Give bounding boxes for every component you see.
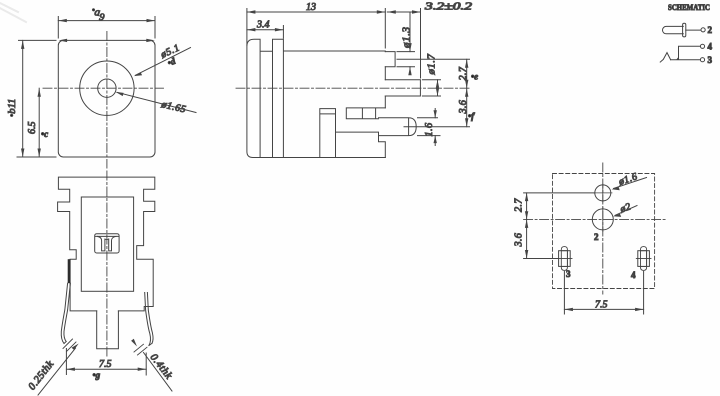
pcb leader ø1.6 line + arrow <box>614 178 647 189</box>
svg-text:•b11: •b11 <box>6 99 18 117</box>
top pin ø1.3 <box>385 52 395 67</box>
svg-text:3: 3 <box>708 55 713 65</box>
svg-text:4: 4 <box>631 270 636 280</box>
pcb dim 7.5 arrows <box>564 308 573 311</box>
right leg leader arrow <box>130 337 138 347</box>
pcb slot4 center tick <box>636 258 651 260</box>
svg-text:•d: •d <box>166 56 177 68</box>
svg-text:ø1.3: ø1.3 <box>401 26 413 49</box>
schematic switch spring <box>660 53 670 63</box>
svg-text:3.2±0.2: 3.2±0.2 <box>423 2 472 13</box>
dim a9 arrows <box>58 19 67 22</box>
right leg strip <box>145 293 153 346</box>
front view vertical centerline <box>106 32 108 169</box>
svg-text:•e: •e <box>471 72 478 82</box>
pcb horizontal centerline <box>524 218 666 220</box>
schematic pin3 terminal <box>700 58 704 62</box>
dim b11 extension lines <box>17 40 56 157</box>
switch pin bullet <box>379 118 417 136</box>
pcb slot4 verticals <box>641 251 647 267</box>
left leg leader arrow <box>72 344 79 350</box>
svg-text:7.5: 7.5 <box>595 300 608 311</box>
dim 3.6 line <box>466 88 468 127</box>
schematic pin4 terminal <box>700 44 704 48</box>
front view center pin hole ø1.65 <box>98 79 116 97</box>
dim b11 line <box>22 40 24 157</box>
dim 6.5 arrows <box>38 88 41 97</box>
svg-text:3.4: 3.4 <box>256 19 270 30</box>
side view centerline <box>236 87 470 89</box>
svg-text:4: 4 <box>708 42 713 52</box>
left leg strip <box>61 283 70 343</box>
left leg leader line <box>38 348 76 395</box>
pcb dim 2.7 extension line <box>524 192 595 194</box>
pcb vertical centerline <box>602 163 604 294</box>
left leg tick marks <box>63 339 76 352</box>
right leg tick marks <box>134 344 147 355</box>
inner vertical bar <box>320 109 336 158</box>
dim 3.4 arrows <box>247 28 256 31</box>
dim 3.4 line <box>247 29 284 31</box>
front view horizontal centerline <box>43 87 164 89</box>
dim 2.7 arrows <box>465 59 468 68</box>
pcb hole ø1.6 cross ticks <box>594 184 612 202</box>
svg-text:•g: •g <box>93 370 101 380</box>
schematic plug tip bar <box>683 23 686 37</box>
dim 7.5g line <box>66 368 146 370</box>
pcb dim 3.6 line + arrows <box>526 219 528 258</box>
dim ø1.7 line + arrows <box>437 80 439 96</box>
pcb dim 7.5 extension lines <box>564 272 643 315</box>
pcb dim 7.5 line <box>564 308 643 310</box>
pcb dim 3.6 extension line <box>524 258 558 260</box>
pin1 center extension <box>397 58 470 60</box>
schematic pin3 line <box>671 59 701 61</box>
dim 6.5 line <box>38 88 40 157</box>
schematic plug barrel <box>663 26 684 33</box>
pcb slot 4 stadium <box>641 247 647 271</box>
dim 13 extension lines <box>247 9 385 49</box>
svg-text:2: 2 <box>594 232 599 242</box>
left leg thick bar <box>68 259 71 283</box>
dim 13 arrows <box>247 10 256 13</box>
front view barrel hole ø5.1 <box>80 61 134 115</box>
pcb hole ø2 (pin 2) <box>592 209 613 230</box>
top edge arrow left <box>59 39 68 42</box>
svg-text:2.7: 2.7 <box>514 198 525 212</box>
schematic junction <box>676 56 679 59</box>
right leg leader line <box>144 353 173 392</box>
leader ø1.65 line <box>117 92 196 112</box>
bottom view inner rect <box>81 197 133 291</box>
dim 3.6 arrows <box>465 88 468 97</box>
svg-text:1.6: 1.6 <box>424 122 435 136</box>
side view right edge segments <box>384 67 386 108</box>
bottom view outline <box>58 177 155 311</box>
leader ø5.1 arrow <box>134 72 142 76</box>
svg-text:2.7: 2.7 <box>458 66 469 80</box>
contact window left funnel <box>98 236 105 251</box>
svg-text:13: 13 <box>306 2 316 13</box>
dim b11 arrows <box>21 40 24 49</box>
dim ø1.3 dim line + arrows <box>409 13 411 74</box>
pcb slot 3 outer rect <box>559 251 571 267</box>
dim 2.7 line <box>466 59 468 88</box>
svg-text:SCHEMATIC: SCHEMATIC <box>668 2 710 12</box>
dim 1.6 line + arrows <box>434 109 436 146</box>
dim ø1.3 extension lines <box>397 52 415 67</box>
pcb slot3 verticals <box>561 251 567 267</box>
dim 3.2 extension line <box>420 9 422 79</box>
dim a9 line <box>58 20 155 22</box>
bottom view vertical centerline <box>106 171 108 357</box>
svg-text:3: 3 <box>566 269 571 279</box>
pcb hole ø2 vertical tick <box>602 208 604 232</box>
dim 13 line <box>247 11 385 13</box>
switch pin centerline extension <box>404 126 470 128</box>
pcb dim 2.7 line + arrows <box>526 193 528 220</box>
pcb hole ø1.6 (pin 1) <box>595 185 611 201</box>
pcb leader ø2 line + arrow <box>615 206 637 216</box>
dim 3.4 extension line <box>282 26 284 39</box>
contact window right funnel <box>109 236 116 251</box>
svg-text:3.6: 3.6 <box>514 232 525 247</box>
svg-text:6.5: 6.5 <box>27 122 38 135</box>
svg-text:0.25thk: 0.25thk <box>27 359 57 393</box>
lower step row <box>346 108 385 119</box>
svg-text:•c: •c <box>41 129 48 139</box>
svg-text:•f: •f <box>468 111 475 121</box>
leader ø1.65 arrow <box>116 92 124 96</box>
contact window center channel <box>105 238 109 241</box>
contact window outer <box>95 234 119 253</box>
svg-text:0.4thk: 0.4thk <box>148 352 174 382</box>
center pin ø1.7 <box>385 80 420 96</box>
dim 3.2±0.2 line <box>387 11 420 13</box>
schematic pin2 terminal <box>701 28 705 32</box>
pcb slot 3 stadium <box>561 247 567 271</box>
dim ø1.7 extension lines <box>422 80 440 96</box>
pcb layout dashed outline <box>553 174 655 289</box>
svg-text:ø1.65: ø1.65 <box>159 99 187 116</box>
front view body outline <box>58 40 155 157</box>
side view outline with flange plates <box>247 39 385 157</box>
dim 3.2 arrows <box>387 10 396 13</box>
leader ø5.1 line <box>136 48 191 76</box>
svg-text:7.5: 7.5 <box>99 359 112 370</box>
dim 7.5g extension lines <box>66 349 146 376</box>
dim 7.5g arrows <box>66 368 75 371</box>
svg-text:ø1.7: ø1.7 <box>426 54 438 76</box>
pcb slot3 center tick <box>558 258 573 260</box>
svg-text:2: 2 <box>708 25 713 35</box>
schematic pin2 line <box>686 29 701 31</box>
contact window top line <box>95 235 118 237</box>
dim 1.6 extension lines <box>418 118 441 136</box>
schematic pin4 line <box>679 46 701 58</box>
top edge arrow right <box>146 39 155 42</box>
pcb slot 4 outer rect <box>638 251 650 267</box>
dim a9 extension lines <box>58 17 155 39</box>
lower mid rectangle <box>336 132 386 157</box>
bottom view center shaft <box>97 311 119 349</box>
